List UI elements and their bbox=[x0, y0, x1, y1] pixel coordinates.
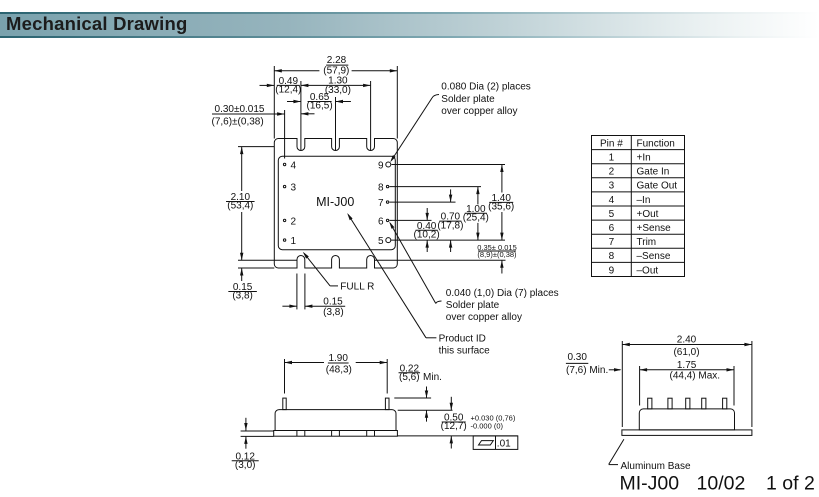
svg-text:Gate Out: Gate Out bbox=[637, 181, 678, 192]
svg-text:over copper alloy: over copper alloy bbox=[441, 106, 517, 117]
svg-text:(44,4) Max.: (44,4) Max. bbox=[670, 371, 721, 382]
svg-text:(7,6)±(0,38): (7,6)±(0,38) bbox=[212, 117, 264, 128]
svg-text:1.75: 1.75 bbox=[677, 360, 697, 371]
svg-text:MI-J00: MI-J00 bbox=[316, 195, 354, 209]
svg-text:1: 1 bbox=[291, 236, 297, 247]
svg-text:1.90: 1.90 bbox=[328, 353, 348, 364]
svg-text:Gate In: Gate In bbox=[637, 167, 670, 178]
svg-text:6: 6 bbox=[378, 216, 384, 227]
svg-text:Trim: Trim bbox=[637, 237, 657, 248]
svg-text:10/02: 10/02 bbox=[697, 472, 746, 494]
svg-text:4: 4 bbox=[291, 160, 297, 171]
svg-text:(10,2): (10,2) bbox=[414, 229, 440, 240]
svg-text:(3,8): (3,8) bbox=[232, 291, 253, 302]
svg-text:(7,6) Min.: (7,6) Min. bbox=[566, 365, 608, 376]
svg-text:Aluminum Base: Aluminum Base bbox=[621, 461, 691, 472]
svg-text:(48,3): (48,3) bbox=[326, 364, 352, 375]
svg-text:(53,4): (53,4) bbox=[227, 201, 253, 212]
svg-text:(3,0): (3,0) bbox=[235, 460, 256, 471]
svg-text:-0.000 (0): -0.000 (0) bbox=[471, 422, 504, 431]
svg-text:3: 3 bbox=[609, 181, 615, 192]
svg-text:2: 2 bbox=[291, 216, 297, 227]
svg-text:–In: –In bbox=[637, 195, 651, 206]
svg-text:0.040 (1,0) Dia (7) places: 0.040 (1,0) Dia (7) places bbox=[446, 288, 559, 299]
svg-text:0.080 Dia (2) places: 0.080 Dia (2) places bbox=[441, 82, 531, 93]
svg-text:0.30: 0.30 bbox=[567, 352, 587, 363]
svg-text:(25,4): (25,4) bbox=[463, 213, 489, 224]
svg-text:(35,6): (35,6) bbox=[488, 202, 514, 213]
svg-text:+In: +In bbox=[637, 152, 651, 163]
svg-text:4: 4 bbox=[609, 195, 615, 206]
svg-text:Solder plate: Solder plate bbox=[441, 94, 495, 105]
svg-text:(17,8): (17,8) bbox=[437, 220, 463, 231]
svg-text:FULL R: FULL R bbox=[340, 282, 374, 293]
svg-text:2.40: 2.40 bbox=[677, 334, 697, 345]
svg-text:(12,4): (12,4) bbox=[275, 85, 301, 96]
svg-text:+Sense: +Sense bbox=[637, 223, 672, 234]
svg-text:(61,0): (61,0) bbox=[673, 347, 699, 358]
svg-text:Pin #: Pin # bbox=[600, 138, 623, 149]
svg-text:8: 8 bbox=[378, 183, 384, 194]
svg-text:(5,6): (5,6) bbox=[399, 372, 420, 383]
svg-text:1: 1 bbox=[609, 152, 615, 163]
svg-text:2: 2 bbox=[609, 167, 615, 178]
svg-text:8: 8 bbox=[609, 251, 615, 262]
svg-text:Product ID: Product ID bbox=[439, 334, 486, 345]
svg-text:MI-J00: MI-J00 bbox=[620, 472, 680, 494]
svg-text:7: 7 bbox=[609, 237, 615, 248]
svg-text:5: 5 bbox=[609, 209, 615, 220]
svg-text:7: 7 bbox=[378, 198, 384, 209]
svg-text:over copper alloy: over copper alloy bbox=[446, 312, 522, 323]
svg-text:Function: Function bbox=[637, 138, 675, 149]
svg-text:(3,8): (3,8) bbox=[323, 307, 344, 318]
svg-text:0.15: 0.15 bbox=[323, 296, 343, 307]
svg-text:1 of 2: 1 of 2 bbox=[766, 472, 815, 494]
svg-text:–Sense: –Sense bbox=[637, 251, 671, 262]
svg-text:.01: .01 bbox=[497, 438, 511, 449]
svg-text:3: 3 bbox=[291, 183, 297, 194]
svg-text:(16,5): (16,5) bbox=[307, 101, 333, 112]
svg-text:Solder plate: Solder plate bbox=[446, 300, 500, 311]
svg-text:Min.: Min. bbox=[423, 372, 442, 383]
svg-text:9: 9 bbox=[378, 160, 384, 171]
svg-text:9: 9 bbox=[609, 265, 615, 276]
svg-text:+Out: +Out bbox=[637, 209, 659, 220]
svg-text:5: 5 bbox=[378, 236, 384, 247]
svg-text:(8,9)±(0,38): (8,9)±(0,38) bbox=[477, 250, 517, 259]
svg-text:0.30±0.015: 0.30±0.015 bbox=[215, 104, 265, 115]
svg-text:6: 6 bbox=[609, 223, 615, 234]
svg-text:this surface: this surface bbox=[439, 345, 491, 356]
svg-text:–Out: –Out bbox=[637, 265, 659, 276]
svg-text:(12,7): (12,7) bbox=[441, 421, 467, 432]
